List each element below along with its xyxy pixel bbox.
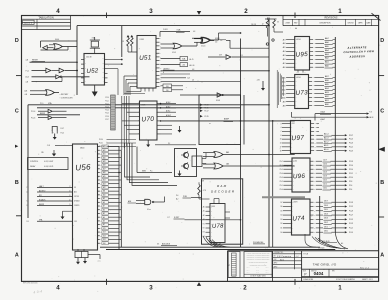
ground (54, 134, 56, 138)
U74 left inputs (280, 202, 293, 234)
svg-text:P5-1: P5-1 (280, 185, 283, 187)
svg-text:33: 33 (277, 22, 279, 24)
svg-text:F-8: F-8 (370, 111, 372, 113)
svg-text:P1-25: P1-25 (105, 113, 109, 115)
buffer P1-14 (31, 109, 67, 113)
svg-text:3: 3 (149, 285, 153, 292)
wire fan bus into U70 (122, 96, 136, 150)
svg-text:A: A (380, 253, 384, 259)
gate U53b OR (192, 33, 241, 48)
svg-text:P L: P L (229, 264, 231, 266)
svg-text:AB1: AB1 (325, 99, 329, 102)
svg-text:P1-32: P1-32 (99, 146, 103, 148)
svg-text:4-B: 4-B (25, 94, 27, 96)
wire X1AL (160, 29, 195, 37)
U56 left pins (26, 185, 80, 223)
svg-text:LS244: LS244 (296, 77, 301, 79)
svg-text:AB5: AB5 (325, 83, 329, 86)
gate U58 XOR (194, 38, 230, 44)
svg-text:U74: U74 (292, 215, 305, 223)
svg-text:1K: 1K (122, 41, 124, 43)
svg-text:P5-0: P5-0 (280, 189, 283, 191)
gate U60a OR (203, 151, 295, 157)
svg-text:CD5: CD5 (323, 168, 327, 170)
svg-text:B: B (380, 180, 384, 186)
svg-text:P1-20: P1-20 (105, 97, 109, 99)
svg-text:CD0: CD0 (323, 188, 327, 190)
svg-text:XX .X: XX .X (256, 272, 259, 274)
IC U51 (137, 36, 156, 89)
svg-text:P1-26: P1-26 (105, 116, 109, 118)
ground (147, 140, 149, 145)
resistor R2 (122, 35, 129, 52)
IC U56 (73, 144, 98, 250)
svg-text:2-8: 2-8 (26, 221, 28, 223)
U96 left inputs (280, 161, 294, 191)
wire PUB (176, 195, 202, 200)
svg-text:RESET: RESET (32, 59, 39, 61)
input arrows P2 (200, 104, 209, 118)
svg-text:68000: 68000 (80, 148, 85, 150)
resistor R5 (262, 18, 277, 37)
svg-text:U95: U95 (295, 51, 308, 59)
svg-text:P1-29: P1-29 (349, 210, 353, 212)
svg-text:C: C (15, 108, 19, 114)
svg-text:LS138: LS138 (211, 206, 215, 208)
svg-text:DELAY: DELAY (30, 165, 36, 168)
svg-text:P-6: P-6 (176, 195, 179, 197)
svg-text:2-8: 2-8 (220, 40, 222, 42)
svg-text:P5-7: P5-7 (280, 161, 283, 163)
IC U97 (291, 121, 311, 154)
svg-text:P2-14: P2-14 (349, 169, 353, 171)
svg-text:U53-11: U53-11 (201, 46, 206, 48)
svg-text:U51: U51 (139, 54, 152, 62)
svg-text:7-8: 7-8 (26, 187, 28, 189)
svg-text:4-8: 4-8 (192, 80, 194, 82)
svg-text:XX .X: XX .X (247, 269, 250, 271)
U73 left inputs (282, 76, 297, 107)
svg-text:U70: U70 (141, 116, 154, 124)
svg-text:P1-22: P1-22 (105, 103, 109, 105)
svg-text:P: P (304, 273, 306, 277)
U51 output stubs (161, 72, 241, 81)
svg-text:17: 17 (280, 146, 282, 148)
U51 bottom pins (124, 88, 153, 94)
svg-text:18: 18 (280, 150, 282, 152)
svg-text:AA0: AA0 (325, 65, 329, 68)
wire ASTRO long (161, 67, 270, 71)
power +5V (257, 79, 264, 85)
IC U96 (292, 158, 310, 192)
svg-text:CD3: CD3 (323, 176, 327, 178)
svg-text:CHK: CHK (274, 259, 277, 261)
ground (179, 171, 181, 174)
svg-text:THE GRID, I/O: THE GRID, I/O (313, 263, 337, 267)
resistor R6 (273, 20, 283, 33)
svg-text:X16: X16 (166, 86, 169, 88)
power +5V (199, 181, 205, 185)
wire branch (230, 40, 269, 48)
svg-text:D6: D6 (280, 206, 282, 208)
svg-text:AA2: AA2 (325, 57, 329, 60)
svg-text:D03: D03 (103, 235, 106, 237)
svg-text:P2-8: P2-8 (349, 181, 352, 183)
svg-text:4: 4 (56, 285, 60, 292)
wire BGACK out (292, 112, 374, 121)
buffer U49b (52, 68, 78, 73)
U97 left inputs (280, 123, 293, 152)
svg-text:CD2: CD2 (323, 180, 327, 182)
tabulation table (22, 16, 71, 30)
svg-text:2617-38: 2617-38 (86, 57, 92, 59)
svg-text:D7: D7 (280, 202, 282, 204)
svg-text:□ CONTROLLER: □ CONTROLLER (60, 96, 74, 99)
svg-text:AD-0: AD-0 (324, 148, 328, 151)
svg-text:DD2: DD2 (324, 222, 328, 224)
svg-text:P1-5: P1-5 (40, 103, 43, 105)
svg-text:4-8: 4-8 (193, 31, 195, 33)
svg-text:CD1: CD1 (323, 184, 327, 186)
svg-text:P2-16: P2-16 (349, 165, 353, 167)
U56 right pin field (98, 145, 109, 245)
IC U74 (292, 199, 311, 235)
svg-text:P1-21: P1-21 (105, 100, 109, 102)
IC U73 (295, 75, 309, 109)
svg-text:1: 1 (338, 8, 342, 15)
svg-text:P1-24: P1-24 (105, 110, 109, 112)
ground (84, 258, 86, 261)
gate U47 OR (25, 89, 74, 99)
svg-text:P2-4: P2-4 (349, 189, 352, 191)
title block (228, 251, 379, 282)
test point TP1 (266, 43, 268, 45)
svg-text:2-8: 2-8 (215, 42, 217, 44)
svg-text:P1-23: P1-23 (105, 107, 109, 109)
gate U64 NAND (128, 197, 165, 211)
svg-text:OW/RD: OW/RD (74, 205, 80, 207)
svg-text:P2-15: P2-15 (205, 107, 209, 109)
svg-text:P2-21: P2-21 (349, 146, 353, 148)
IC U95 (295, 37, 310, 71)
svg-text:TITLE: TITLE (303, 254, 309, 256)
svg-text:P2-23: P2-23 (349, 143, 353, 145)
svg-text:AB2: AB2 (325, 95, 329, 98)
wire vertical trunk x269 (268, 18, 270, 248)
svg-text:P1-30: P1-30 (99, 139, 103, 141)
U51 right pins (156, 38, 162, 88)
block RAM decoder (202, 179, 243, 244)
wire RESET net (26, 59, 78, 62)
connector strip J1 (105, 95, 115, 130)
svg-text:E2: E2 (203, 228, 205, 230)
wire collector bus (334, 37, 336, 232)
svg-text:W.S: W.S (280, 259, 284, 261)
IC U61 small (192, 153, 206, 167)
wire bus row2 (37, 108, 241, 115)
svg-text:P2-19: P2-19 (205, 116, 209, 118)
ground (92, 85, 98, 97)
wire U56 clock input (47, 145, 73, 147)
svg-text:P2-6: P2-6 (349, 185, 352, 187)
svg-text:D01: D01 (103, 239, 106, 241)
U95 left inputs (283, 38, 297, 69)
U74 output fan (310, 201, 353, 234)
svg-text:D: D (15, 38, 19, 44)
svg-text:P2-17: P2-17 (205, 110, 209, 112)
svg-text:P1-23: P1-23 (349, 223, 353, 225)
svg-text:D00: D00 (103, 243, 106, 245)
wire swoosh left (203, 236, 230, 247)
svg-text:B: B (15, 180, 19, 186)
U70 junction dots (160, 103, 162, 122)
svg-text:DESCRIPTION: DESCRIPTION (320, 22, 332, 24)
svg-text:P1-19: P1-19 (349, 232, 353, 234)
note alternate controller address (343, 45, 374, 59)
gate U53a OR (161, 43, 198, 54)
svg-text:P1-2: P1-2 (26, 70, 29, 72)
svg-text:AB6: AB6 (325, 79, 329, 82)
svg-text:D07: D07 (103, 232, 106, 234)
svg-text:D: D (380, 38, 384, 44)
svg-text:D15: D15 (103, 228, 106, 230)
crystal Y1 (90, 37, 100, 49)
svg-text:P1-14: P1-14 (31, 111, 35, 113)
svg-text:4.7K: 4.7K (203, 190, 206, 192)
resistor R3 (128, 35, 137, 52)
svg-text:D3: D3 (280, 219, 282, 221)
svg-text:DD0: DD0 (324, 231, 328, 233)
buffer U49a (26, 68, 51, 73)
svg-text:P1-21: P1-21 (349, 228, 353, 230)
svg-text:2: 2 (244, 8, 248, 15)
wire swoosh right (305, 232, 348, 250)
svg-text:185: 185 (41, 152, 44, 154)
svg-text:D5: D5 (280, 210, 282, 212)
svg-text:AB3: AB3 (325, 91, 329, 94)
svg-text:DD3: DD3 (324, 218, 328, 220)
wire DTACK out (315, 111, 372, 121)
svg-text:5-2: 5-2 (296, 256, 299, 258)
U73 output fan (309, 75, 336, 107)
inverter U48a (26, 75, 90, 79)
svg-text:U-12, U5-87: U-12, U5-87 (44, 161, 53, 163)
svg-text:P2-19: P2-19 (349, 150, 353, 152)
svg-text:A: A (15, 253, 19, 259)
relay K1 contact (52, 127, 64, 135)
svg-text:P5-5: P5-5 (280, 169, 283, 171)
svg-text:P4-7: P4-7 (61, 128, 64, 130)
U95 bottom pins (296, 70, 306, 73)
svg-text:wav: wav (98, 261, 101, 263)
svg-text:U97: U97 (291, 135, 304, 143)
svg-text:U5-xx: U5-xx (147, 209, 151, 211)
svg-text:E: E (163, 72, 164, 74)
wire enclosure left (76, 26, 78, 95)
ground (179, 126, 181, 130)
svg-text:D0: D0 (280, 232, 282, 234)
svg-text:D E C O D E R: D E C O D E R (211, 189, 235, 193)
svg-text:P-7: P-7 (168, 217, 171, 219)
revisions table (283, 16, 379, 31)
svg-text:2-8: 2-8 (26, 192, 28, 194)
note box (28, 158, 69, 170)
ground (77, 258, 79, 262)
svg-text:AB0: AB0 (325, 103, 329, 106)
IC U70 (136, 101, 161, 140)
svg-text:LS373: LS373 (293, 201, 298, 203)
wire nested corners (125, 143, 178, 185)
svg-text:U52: U52 (86, 67, 99, 75)
svg-text:P1-27: P1-27 (105, 119, 109, 121)
svg-text:ns: ns (209, 123, 211, 125)
wire drop x122 (121, 26, 123, 57)
svg-text:□ RE/TERY: □ RE/TERY (60, 93, 70, 96)
svg-text:C: C (380, 108, 384, 114)
wire S.RST (168, 217, 241, 220)
wire left vertical (27, 105, 29, 218)
svg-text:XX .X: XX .X (256, 267, 259, 269)
svg-text:R A M: R A M (217, 184, 227, 188)
svg-text:CLK51: CLK51 (163, 29, 168, 31)
IC U78 (203, 199, 230, 243)
block driver box (175, 149, 197, 177)
transistor Q1 (181, 152, 189, 159)
svg-text:P2-12: P2-12 (349, 173, 353, 175)
svg-text:ASBP: ASBP (224, 118, 230, 121)
svg-text:216 2-8: 216 2-8 (251, 24, 256, 26)
svg-text:AB7: AB7 (325, 75, 329, 78)
svg-text:CONTROL: CONTROL (30, 161, 38, 163)
svg-text:AA6: AA6 (325, 41, 329, 44)
svg-text:1: 1 (338, 285, 342, 292)
gate U60b OR (203, 163, 295, 169)
svg-text:2-8: 2-8 (26, 205, 28, 207)
svg-text:P1-27: P1-27 (349, 215, 353, 217)
buffer U44a (43, 46, 54, 50)
svg-text:DD1: DD1 (324, 226, 328, 228)
svg-text:SHEET 1 OF 11: SHEET 1 OF 11 (362, 279, 373, 281)
svg-text:0404: 0404 (314, 271, 324, 276)
svg-text:P2-27: P2-27 (349, 135, 353, 137)
svg-text:C/DYN: C/DYN (74, 196, 79, 198)
svg-text:L244: L244 (294, 160, 298, 162)
test point TP2 (272, 39, 274, 41)
svg-text:LS393: LS393 (140, 39, 145, 41)
svg-text:P1-33: P1-33 (349, 202, 353, 204)
svg-text:XX .X: XX .X (256, 269, 259, 271)
wire U70 bottom (155, 143, 196, 145)
svg-text:DD5: DD5 (324, 209, 328, 211)
svg-text:P2-10: P2-10 (349, 177, 353, 179)
svg-text:U73: U73 (295, 89, 308, 97)
svg-text:CHG NO: CHG NO (348, 22, 355, 24)
svg-text:P2-25: P2-25 (349, 139, 353, 141)
svg-text:AD-2: AD-2 (324, 140, 328, 143)
svg-text:374: 374 (292, 123, 295, 125)
svg-text:AA5: AA5 (325, 45, 329, 48)
svg-text:CD7: CD7 (323, 160, 327, 162)
svg-text:U53-8: U53-8 (172, 52, 176, 54)
wire vertical trunk x272 (272, 120, 274, 247)
svg-text:4-B: 4-B (26, 81, 28, 83)
svg-text:TABULATION: TABULATION (38, 16, 54, 19)
svg-text:ALTERNATE: ALTERNATE (346, 45, 367, 50)
svg-text:P5-2: P5-2 (280, 181, 283, 183)
wire bottom bus (100, 243, 335, 250)
svg-text:ZONE: ZONE (286, 22, 290, 24)
buffer U59 (208, 54, 269, 59)
svg-text:XX .X: XX .X (247, 267, 250, 269)
svg-text:3: 3 (149, 8, 153, 15)
svg-text:DD6: DD6 (324, 205, 328, 207)
svg-text:4: 4 (56, 8, 60, 15)
svg-text:XX .X: XX .X (266, 267, 269, 269)
svg-text:2: 2 (243, 285, 247, 292)
U97 output fan (311, 123, 354, 152)
svg-text:REVISIONS: REVISIONS (324, 17, 337, 20)
svg-text:P1-16: P1-16 (31, 117, 35, 119)
svg-text:ADDED 'B': ADDED 'B' (24, 21, 33, 24)
svg-text:P1-31: P1-31 (99, 143, 103, 145)
svg-text:DD7: DD7 (324, 201, 328, 203)
svg-text:U44-6: U44-6 (55, 39, 59, 41)
svg-text:AA3: AA3 (325, 53, 329, 56)
svg-text:AA7: AA7 (325, 37, 329, 40)
wire bus bundle left of U73 (277, 70, 283, 108)
svg-text:U59: U59 (219, 54, 222, 56)
svg-text:14: 14 (280, 143, 282, 145)
svg-text:UNLESS OTHERWISE SPECIFIED: UNLESS OTHERWISE SPECIFIED (249, 262, 268, 264)
svg-text:P4-5: P4-5 (61, 132, 64, 134)
wire U78 output (215, 241, 265, 247)
svg-text:REV: REV (332, 270, 335, 272)
svg-text:D1: D1 (280, 228, 282, 230)
svg-text:E3: E3 (203, 232, 205, 234)
svg-text:REF DWG 0403 0405: REF DWG 0403 0405 (23, 283, 38, 285)
svg-text:7-8: 7-8 (26, 201, 28, 203)
U70 right output labels (161, 101, 295, 134)
svg-text:XX .X: XX .X (247, 272, 250, 274)
svg-text:4-8: 4-8 (192, 69, 194, 71)
wire branch 4B (26, 77, 63, 84)
block frame buffer box (199, 95, 244, 145)
svg-text:P5-4: P5-4 (280, 173, 283, 175)
wire bus row1 (28, 102, 269, 105)
wire top bus (77, 25, 269, 27)
U95 output fan (310, 37, 336, 69)
svg-text:U78: U78 (212, 223, 224, 230)
svg-text:P.R.Cumming: P.R.Cumming (277, 256, 292, 258)
U56 bottom connector (75, 249, 100, 259)
svg-text:AA1: AA1 (325, 61, 329, 64)
svg-text:LS244: LS244 (296, 39, 301, 41)
svg-text:U96: U96 (293, 173, 306, 181)
svg-text:XX .X: XX .X (266, 269, 269, 271)
wire U56 bus vertical (109, 147, 122, 250)
gate U44b OR (49, 44, 77, 50)
svg-text:AD-1: AD-1 (324, 144, 328, 147)
svg-text:U56: U56 (75, 162, 91, 172)
svg-text:P2-13: P2-13 (205, 104, 209, 106)
ground (61, 211, 73, 219)
svg-text:P1-31: P1-31 (349, 206, 353, 208)
svg-text:D2: D2 (280, 223, 282, 225)
svg-text:X1AL: X1AL (177, 29, 181, 32)
svg-text:13: 13 (280, 139, 282, 141)
svg-text:P5-6: P5-6 (280, 165, 283, 167)
U51 left pin fan (124, 74, 137, 96)
